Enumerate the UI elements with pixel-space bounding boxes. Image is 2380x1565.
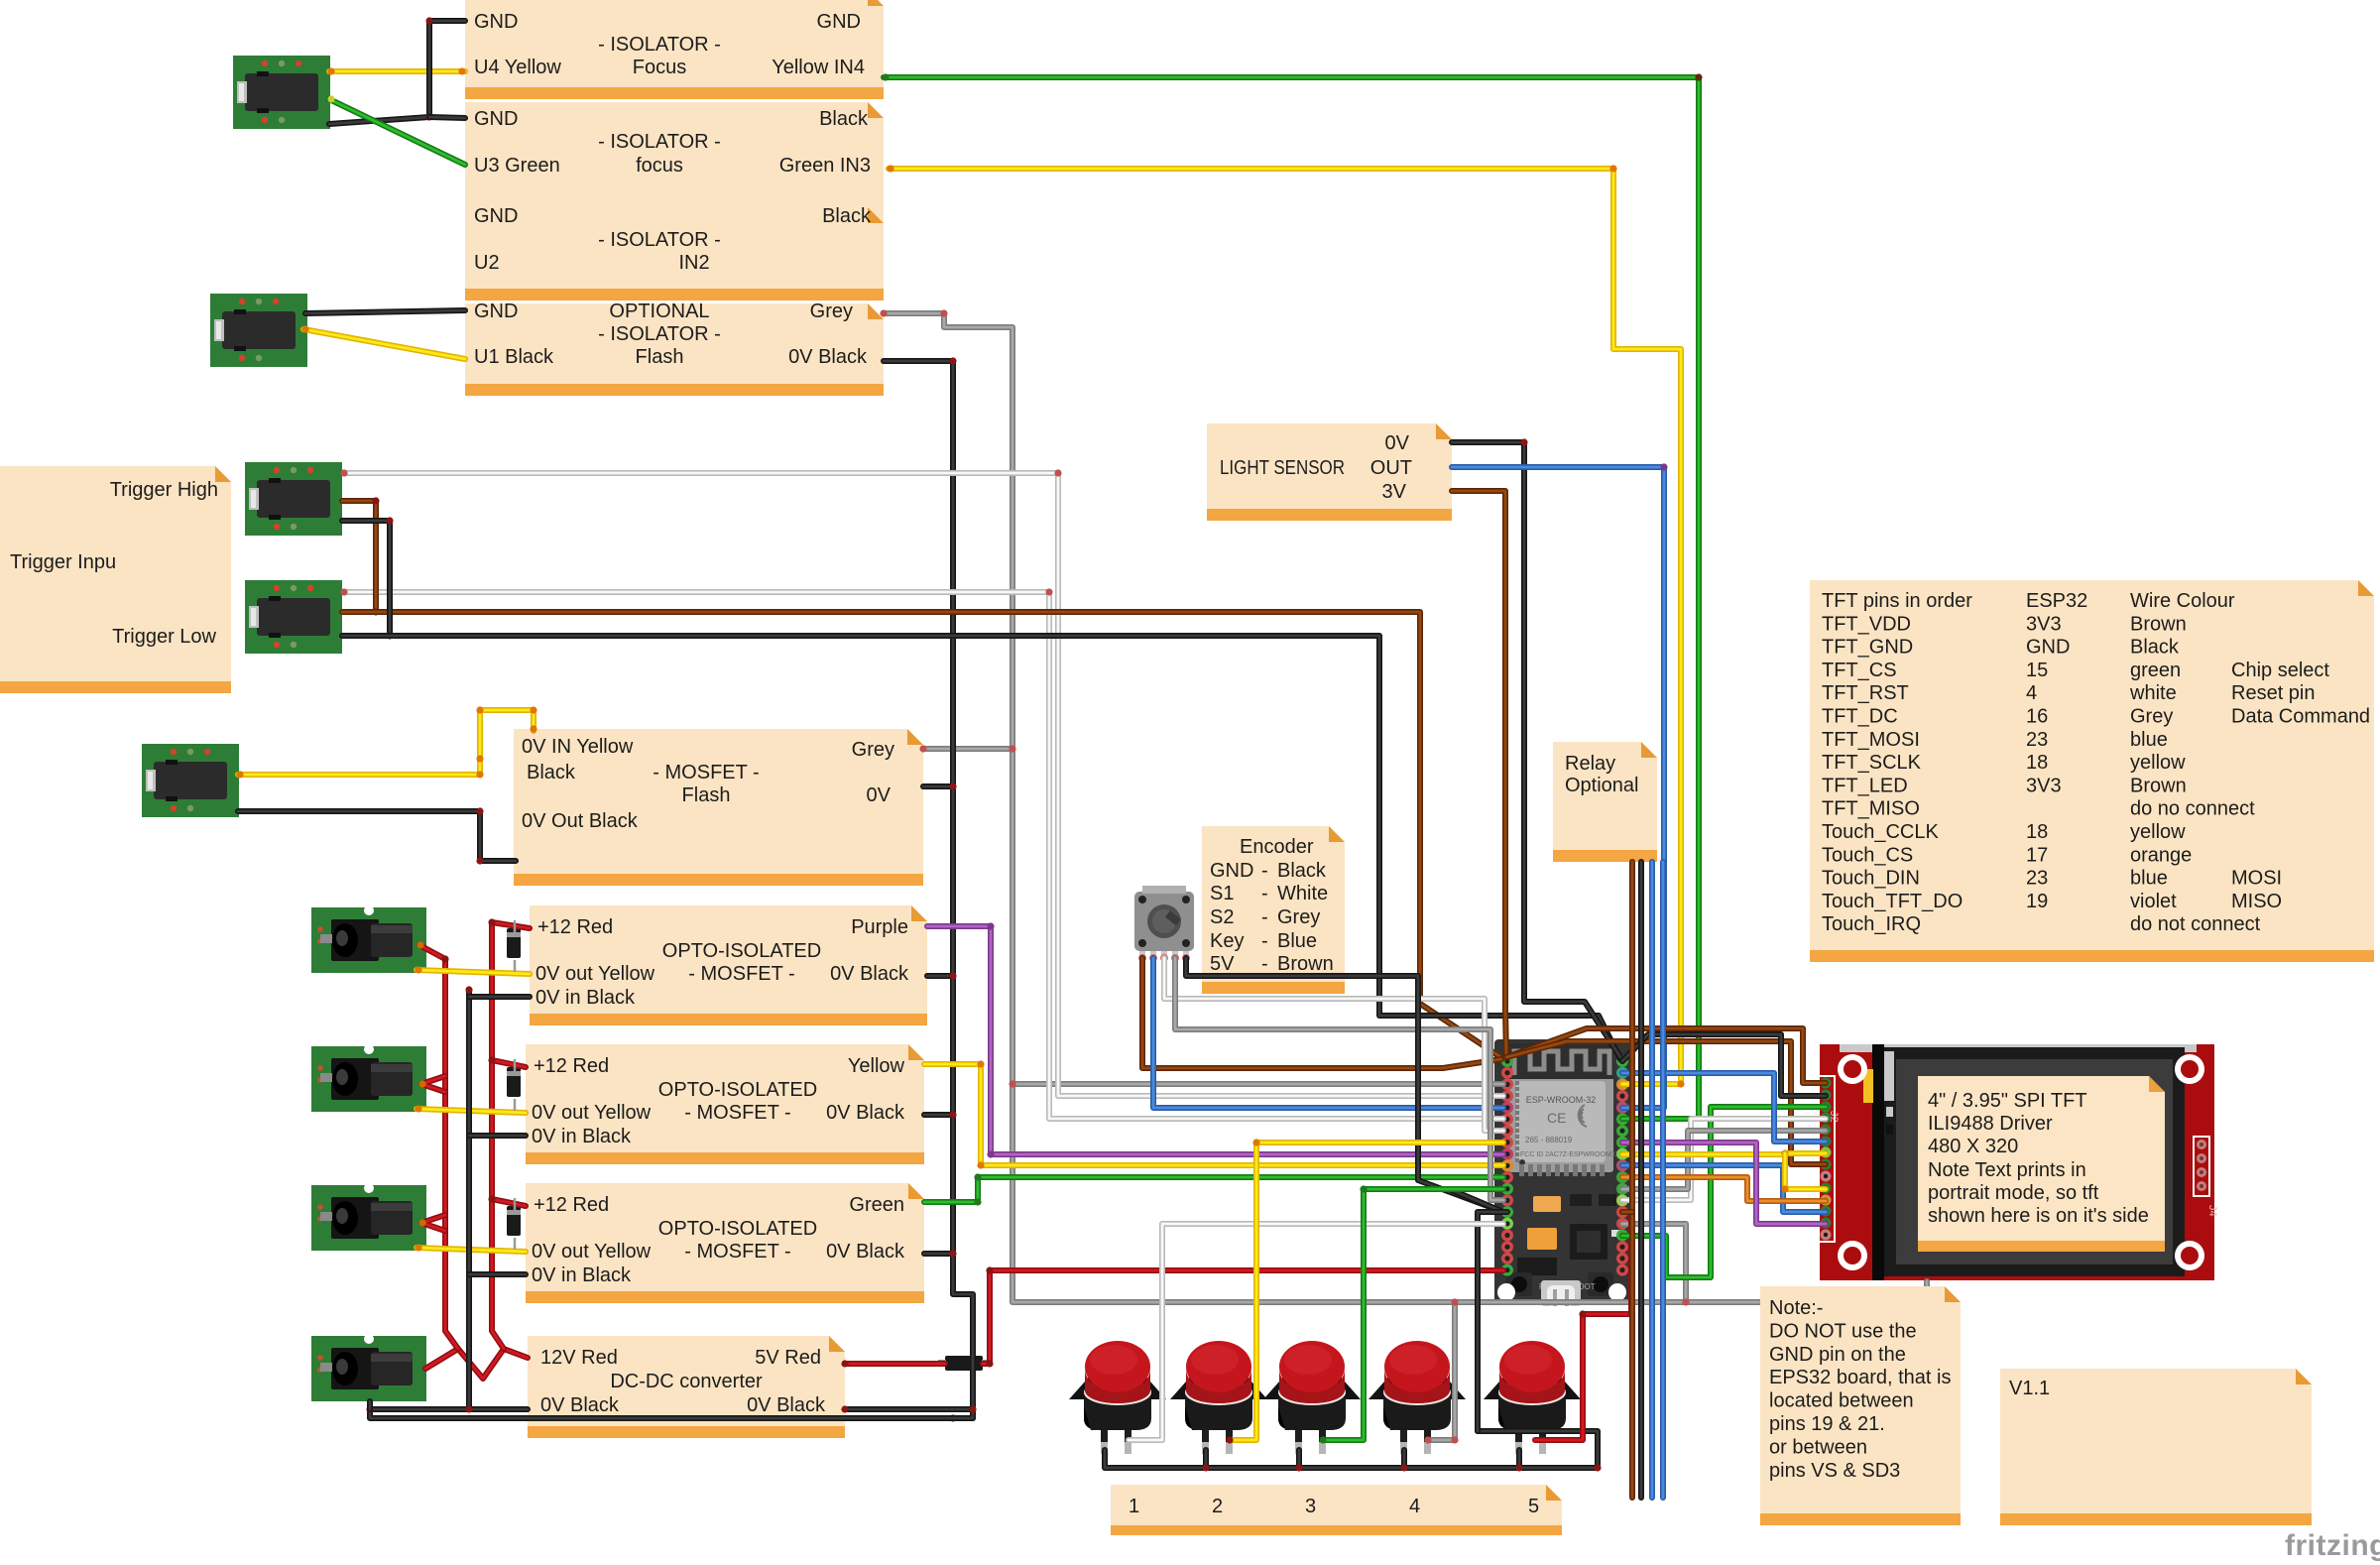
wire white TFT RST [1622, 1119, 1826, 1200]
svg-text:3: 3 [1305, 1496, 1316, 1517]
svg-text:fritzing: fritzing [2285, 1529, 2380, 1562]
wire red diode to ESP VIN [983, 1270, 1503, 1364]
svg-text:3V3: 3V3 [2026, 775, 2062, 796]
wire black button2 leg [1203, 1450, 1209, 1468]
ESP32 pin G33 (left) [1501, 1137, 1513, 1148]
wire white trigger low S [344, 592, 1503, 1119]
wire yellow U1 input [303, 329, 465, 359]
wire grey U1 bus [884, 313, 1927, 1302]
wire yellow touch CCLK [1785, 1153, 1826, 1189]
wire black trigger high [342, 521, 390, 636]
svg-text:18: 18 [2026, 752, 2048, 774]
note optional isolator flash [465, 303, 884, 396]
svg-text:Green: Green [849, 1194, 904, 1216]
wire yellow U4 jack tip [329, 68, 465, 74]
ESP32 pin VN (left) [1501, 1090, 1513, 1102]
svg-text:15: 15 [2026, 660, 2048, 681]
TFT J4 pin 1 [2197, 1140, 2206, 1149]
svg-text:Chip select: Chip select [2231, 660, 2329, 681]
svg-text:0V IN Yellow: 0V IN Yellow [522, 736, 634, 758]
svg-text:3V3: 3V3 [2026, 613, 2062, 635]
wire red rail +12 feeds [492, 922, 530, 1349]
svg-text:S2: S2 [1210, 906, 1234, 928]
wire brown TFT LED [1506, 1041, 1826, 1164]
svg-text:4: 4 [2026, 682, 2037, 704]
TFT J2 pin 4 [1821, 1113, 1832, 1124]
TFT J2 pin 7 [1821, 1147, 1832, 1158]
svg-text:blue: blue [2130, 868, 2168, 890]
svg-text:0V Black: 0V Black [747, 1394, 826, 1416]
diode D4 [945, 1356, 983, 1371]
svg-text:pins VS & SD3: pins VS & SD3 [1769, 1460, 1900, 1482]
ESP32 pin G35 (left) [1501, 1114, 1513, 1126]
ESP32 DevKit board U10 [1494, 1039, 1629, 1306]
svg-text:do no connect: do no connect [2130, 798, 2255, 820]
ESP32 pin SD3 (left) [1501, 1241, 1513, 1253]
svg-text:265 - 888019: 265 - 888019 [1525, 1136, 1573, 1144]
wire black spur mosfet1 [469, 994, 530, 1000]
ESP32 pin G13 (left) [1501, 1218, 1513, 1230]
svg-text:green: green [2130, 660, 2181, 681]
ESP32 pin G17 (right) [1616, 1171, 1628, 1183]
wire brown trigger high [342, 501, 376, 612]
svg-text:Black: Black [819, 108, 869, 130]
wire white encoder S1 [1164, 958, 1503, 1131]
note DC-DC converter [528, 1336, 845, 1438]
svg-text:Touch_DIN: Touch_DIN [1822, 868, 1920, 890]
svg-text:focus: focus [636, 155, 683, 177]
svg-text:-: - [1261, 883, 1268, 904]
svg-text:Focus: Focus [633, 57, 686, 78]
push button 1 [1069, 1341, 1166, 1454]
svg-text:Optional: Optional [1565, 775, 1639, 796]
ESP32 pin SD0 (right) [1616, 1253, 1628, 1264]
svg-text:5V: 5V [1210, 953, 1235, 975]
svg-text:23: 23 [2026, 868, 2048, 890]
ESP32 pin G5 (right) [1616, 1159, 1628, 1171]
wire black encoder GND [1186, 958, 1503, 1212]
TFT J2 pin 10 [1821, 1183, 1832, 1194]
wire brown G0 stub [1622, 1209, 1632, 1215]
TFT J2 pin 13 [1821, 1218, 1832, 1229]
ESP32 pin CLK (right) [1616, 1264, 1628, 1276]
wire black MOSFET3 0V [924, 1251, 953, 1257]
TFT J2 pin 12 [1821, 1206, 1832, 1217]
wire green encoder stub [1139, 958, 1145, 976]
svg-text:TFT_CS: TFT_CS [1822, 660, 1897, 681]
svg-text:Touch_CCLK: Touch_CCLK [1822, 821, 1940, 843]
svg-text:-: - [1261, 860, 1268, 882]
wire black flash out [238, 811, 516, 861]
wire black ESP GND down [1478, 1212, 1507, 1431]
svg-text:Flash: Flash [682, 784, 731, 806]
ESP32 pin G2 (right) [1616, 1218, 1628, 1230]
svg-text:U2: U2 [474, 252, 500, 274]
TFT J2 pin 5 [1821, 1125, 1832, 1136]
svg-text:DC-DC converter: DC-DC converter [610, 1371, 763, 1392]
wire blue touch DIN [1622, 1165, 1826, 1212]
audio jack flash input J9 [142, 744, 239, 817]
note isolator U4 Focus [465, 0, 884, 99]
wire black button bus [1105, 1431, 1598, 1468]
svg-text:located between: located between [1769, 1390, 1914, 1412]
audio jack U1 input J6 [210, 294, 307, 367]
svg-text:white: white [2129, 682, 2177, 704]
wire black button5 leg [1516, 1450, 1522, 1468]
ESP32 pin GND (right) [1616, 1055, 1628, 1067]
svg-text:Green IN3: Green IN3 [779, 155, 871, 177]
wire black U3 GND [429, 117, 465, 118]
wire black spur mosfet3 [469, 1271, 526, 1277]
wire black light sensor 0V [1452, 442, 1620, 1057]
wire black U1 GND [305, 310, 465, 313]
ESP32 pin G21 (right) [1616, 1114, 1628, 1126]
ESP32 pin G23 (right) [1616, 1067, 1628, 1079]
ESP32 pin SD2 (left) [1501, 1230, 1513, 1242]
wire yellow jack2 0V out [416, 1109, 526, 1113]
svg-text:OPTO-ISOLATED: OPTO-ISOLATED [658, 1079, 817, 1101]
svg-text:LIGHT SENSOR: LIGHT SENSOR [1220, 457, 1345, 479]
TFT display module 4in ILI9488 [1820, 1044, 2218, 1280]
TFT J2 pin 6 [1821, 1137, 1832, 1147]
svg-text:TFT_SCLK: TFT_SCLK [1822, 752, 1922, 774]
note relay optional [1553, 742, 1657, 862]
svg-text:shown here is on it's side: shown here is on it's side [1928, 1205, 2149, 1227]
ESP32 pin G14 (left) [1501, 1183, 1513, 1195]
wire black button3 leg [1296, 1450, 1302, 1468]
ESP32 pin GND (left) [1501, 1206, 1513, 1218]
svg-text:or between: or between [1769, 1436, 1867, 1458]
svg-text:TFT_RST: TFT_RST [1822, 682, 1909, 704]
TFT J4 pin 3 [2197, 1167, 2206, 1177]
svg-text:IN2: IN2 [678, 252, 709, 274]
ESP32 pin G25 (left) [1501, 1148, 1513, 1160]
svg-text:23: 23 [2026, 729, 2048, 751]
svg-text:0V out Yellow: 0V out Yellow [535, 963, 655, 985]
svg-text:Black: Black [1277, 860, 1327, 882]
svg-text:+12 Red: +12 Red [534, 1055, 609, 1077]
wire yellow button2 [1230, 1143, 1503, 1440]
wire black jack4 stub [367, 1401, 373, 1409]
barrel jack +12V channel 1 [311, 905, 426, 973]
ESP32 pin G22 (right) [1616, 1078, 1628, 1090]
wire black MOSFET2 0V [924, 1112, 953, 1118]
wire brown light sensor 3V [1452, 491, 1506, 1057]
svg-text:1: 1 [1129, 1496, 1139, 1517]
svg-text:Yellow: Yellow [848, 1055, 905, 1077]
svg-text:ILI9488 Driver: ILI9488 Driver [1928, 1113, 2053, 1135]
svg-text:Brown: Brown [1277, 953, 1334, 975]
svg-text:Relay: Relay [1565, 753, 1615, 775]
svg-text:- MOSFET -: - MOSFET - [684, 1241, 790, 1263]
svg-text:Touch_IRQ: Touch_IRQ [1822, 913, 1921, 935]
wire black spur mosfet2 [469, 1133, 526, 1139]
svg-text:- ISOLATOR -: - ISOLATOR - [598, 323, 721, 345]
svg-text:Flash: Flash [636, 346, 684, 368]
wire red button5 [1535, 1212, 1631, 1440]
svg-text:0V in Black: 0V in Black [535, 987, 636, 1009]
wire white button1 [1129, 1224, 1503, 1440]
TFT J4 pin 2 [2197, 1153, 2206, 1163]
note isolator U2 IN2 [465, 207, 884, 301]
svg-text:0V Black: 0V Black [540, 1394, 620, 1416]
svg-text:12V Red: 12V Red [540, 1347, 618, 1369]
svg-text:- ISOLATOR -: - ISOLATOR - [598, 229, 721, 251]
svg-text:16: 16 [2026, 706, 2048, 728]
wire grey flash join [923, 746, 1012, 752]
rotary encoder [1134, 886, 1194, 951]
wire green button3 [1323, 1189, 1503, 1440]
wire brown TFT VDD [1506, 1028, 1826, 1083]
note TFT pin table [1810, 580, 2374, 962]
svg-text:Black: Black [527, 762, 576, 783]
TFT J2 pin 2 [1821, 1090, 1832, 1101]
wire grey branch to ESP VP [1012, 1081, 1503, 1087]
svg-text:TFT_LED: TFT_LED [1822, 775, 1908, 796]
svg-text:GND: GND [474, 301, 518, 322]
svg-text:0V Out Black: 0V Out Black [522, 810, 639, 832]
svg-text:Grey: Grey [810, 301, 853, 322]
wire red DCDC 12V zigzag [425, 1349, 528, 1379]
svg-text:- MOSFET -: - MOSFET - [688, 963, 794, 985]
ESP32 pin G15 (right) [1616, 1230, 1628, 1242]
TFT J4 pin 4 [2197, 1181, 2206, 1191]
wire red spur mosfet3 [492, 1199, 526, 1206]
svg-text:Purple: Purple [851, 916, 908, 938]
wire black trigger to ESP GND [342, 636, 1620, 1059]
svg-text:17: 17 [2026, 844, 2048, 866]
wire white trigger high S [344, 473, 1503, 1096]
push button 4 [1368, 1341, 1466, 1454]
svg-text:2: 2 [1212, 1496, 1223, 1517]
note encoder pinout [1202, 826, 1345, 994]
svg-text:Touch_CS: Touch_CS [1822, 844, 1913, 866]
wire yellow IN3 to ESP G22 [889, 169, 1681, 1084]
svg-text:0V in Black: 0V in Black [532, 1264, 632, 1286]
svg-text:0V Black: 0V Black [826, 1241, 905, 1263]
svg-text:Key: Key [1210, 930, 1244, 952]
note MOSFET flash [514, 729, 923, 886]
diode D1 leads [514, 920, 517, 972]
wire red DCDC 5V to diode [845, 1361, 945, 1367]
wire grey TFT DC [1622, 1131, 1826, 1189]
note light sensor [1207, 423, 1452, 521]
svg-text:GND: GND [474, 108, 518, 130]
ESP32 pin G27 (left) [1501, 1171, 1513, 1183]
svg-text:J4: J4 [2206, 1205, 2218, 1217]
ESP32 pin GND2 (right) [1616, 1125, 1628, 1137]
svg-text:do not connect: do not connect [2130, 913, 2261, 935]
wire yellow jack3 0V out [416, 1248, 526, 1252]
svg-text:Touch_TFT_DO: Touch_TFT_DO [1822, 891, 1963, 912]
TFT J2 pin 11 [1821, 1195, 1832, 1206]
ESP32 pin VIN (left) [1501, 1264, 1513, 1276]
ESP32 pin G4 (right) [1616, 1194, 1628, 1206]
TFT J2 pin 1 [1821, 1078, 1832, 1089]
ESP32 pin G19 (right) [1616, 1137, 1628, 1148]
wire blue relay 1 [1649, 862, 1655, 1498]
svg-text:Grey: Grey [2130, 706, 2173, 728]
note opto-isolated MOSFET 3 [526, 1183, 924, 1303]
ESP32 pin G0 (right) [1616, 1206, 1628, 1218]
svg-text:TFT_VDD: TFT_VDD [1822, 613, 1911, 635]
svg-text:5V Red: 5V Red [755, 1347, 821, 1369]
wire green TFT CS [1622, 1107, 1826, 1277]
svg-text:- MOSFET -: - MOSFET - [684, 1102, 790, 1124]
ESP32 pin VP (left) [1501, 1078, 1513, 1090]
svg-text:- ISOLATOR -: - ISOLATOR - [598, 131, 721, 153]
ESP32 pin G18 (right) [1616, 1148, 1628, 1160]
push button 5 [1484, 1341, 1581, 1454]
svg-text:pins 19 & 21.: pins 19 & 21. [1769, 1413, 1885, 1435]
barrel jack 12V input [311, 1334, 426, 1401]
wire black relay [1638, 862, 1644, 1498]
svg-text:ESP32: ESP32 [2026, 590, 2087, 612]
svg-text:Black: Black [2130, 637, 2180, 659]
wire red rail jacks [419, 945, 458, 1349]
TFT J2 pin 3 [1821, 1102, 1832, 1113]
push button 2 [1170, 1341, 1267, 1454]
svg-text:Trigger High: Trigger High [110, 479, 218, 501]
wire violet touch DO [1622, 1143, 1826, 1224]
audio jack trigger high J7 [245, 462, 342, 536]
barrel jack +12V channel 3 [311, 1183, 426, 1251]
svg-text:GND: GND [817, 11, 861, 33]
svg-text:OPTO-ISOLATED: OPTO-ISOLATED [662, 940, 821, 962]
svg-text:0V out Yellow: 0V out Yellow [532, 1102, 652, 1124]
encoder pins [1139, 951, 1145, 961]
svg-text:CE: CE [1547, 1110, 1566, 1126]
ESP32 pin G12 (left) [1501, 1194, 1513, 1206]
svg-text:Brown: Brown [2130, 775, 2187, 796]
svg-text:Trigger Inpu: Trigger Inpu [10, 551, 116, 573]
wire brown encoder 5V [1142, 958, 1501, 1068]
svg-text:TFT_DC: TFT_DC [1822, 706, 1898, 728]
svg-text:portrait mode, so tft: portrait mode, so tft [1928, 1182, 2099, 1204]
svg-text:0V Black: 0V Black [788, 346, 868, 368]
diode D1 [507, 928, 521, 958]
svg-text:GND pin on the: GND pin on the [1769, 1344, 1906, 1366]
note TFT description (on screen) [1918, 1076, 2165, 1252]
svg-text:MISO: MISO [2231, 891, 2282, 912]
svg-text:yellow: yellow [2130, 752, 2186, 774]
svg-text:GND: GND [474, 11, 518, 33]
barrel jack +12V channel 2 [311, 1044, 426, 1112]
svg-text:18: 18 [2026, 821, 2048, 843]
svg-text:Brown: Brown [2130, 613, 2187, 635]
wire brown trigger to ESP 3V3 [342, 612, 1502, 1058]
svg-text:White: White [1277, 883, 1328, 904]
svg-text:yellow: yellow [2130, 821, 2186, 843]
TFT J4 header [2194, 1137, 2209, 1196]
note opto-isolated MOSFET 1 [530, 905, 927, 1025]
wire black flash 0V join [923, 783, 953, 789]
svg-text:violet: violet [2130, 891, 2177, 912]
wire brown relay [1629, 862, 1635, 1498]
wire black GND fan [1452, 1190, 1503, 1212]
ESP32 pin TXD (right) [1616, 1090, 1628, 1102]
svg-text:OUT: OUT [1370, 457, 1412, 479]
wire blue relay 2 [1660, 862, 1666, 1498]
wire black TFT GND [1622, 1034, 1826, 1096]
svg-text:0V Black: 0V Black [830, 963, 909, 985]
svg-text:S1: S1 [1210, 883, 1234, 904]
audio jack trigger low J8 [245, 580, 342, 654]
wire orange touch CS [1622, 1177, 1826, 1201]
svg-text:GND: GND [1210, 860, 1253, 882]
audio jack U4/U3 input J5 [233, 56, 330, 129]
wire black 0V in rail [466, 990, 472, 1409]
note trigger inputs [0, 466, 231, 693]
diode D3 [507, 1206, 521, 1236]
svg-text:- ISOLATOR -: - ISOLATOR - [598, 34, 721, 56]
wire black MOSFET1 0V [927, 973, 953, 979]
ESP32 pin G26 (left) [1501, 1159, 1513, 1171]
wire green U3 input [329, 99, 465, 165]
svg-text:blue: blue [2130, 729, 2168, 751]
wire green MOSFET3 out [924, 1177, 1503, 1202]
wire red spur mosfet2 [492, 1060, 526, 1067]
wire yellow TFT SCLK [1622, 1153, 1826, 1154]
wire red spur jack2 [421, 1076, 445, 1092]
note GND pin warning [1760, 1286, 1961, 1525]
ESP32 pin SD1 (right) [1616, 1241, 1628, 1253]
svg-text:Data Command: Data Command [2231, 706, 2370, 728]
TFT J2 pin 9 [1821, 1171, 1832, 1182]
svg-text:480 X 320: 480 X 320 [1928, 1136, 2018, 1157]
ESP32 pin G34 (left) [1501, 1102, 1513, 1114]
note opto-isolated MOSFET 2 [526, 1044, 924, 1164]
ESP32 pin RXD (right) [1616, 1102, 1628, 1114]
svg-text:TFT pins in order: TFT pins in order [1822, 590, 1972, 612]
TFT J2 pin 14 [1821, 1230, 1832, 1241]
svg-text:EPS32 board, that is: EPS32 board, that is [1769, 1367, 1951, 1388]
svg-text:Trigger Low: Trigger Low [112, 626, 216, 648]
svg-text:19: 19 [2026, 891, 2048, 912]
note isolator U3 focus [465, 102, 884, 207]
wire yellow flash in [238, 710, 534, 775]
ESP32 pin 3V3 (left) [1501, 1055, 1513, 1067]
diode D3 leads [514, 1198, 517, 1250]
svg-text:Blue: Blue [1277, 930, 1317, 952]
ESP32 pin EN (left) [1501, 1067, 1513, 1079]
svg-text:0V: 0V [1385, 432, 1410, 454]
svg-text:3V: 3V [1382, 481, 1407, 503]
note version V1.1 [2000, 1369, 2312, 1525]
svg-text:U4 Yellow: U4 Yellow [474, 57, 561, 78]
svg-text:MOSI: MOSI [2231, 868, 2282, 890]
wire grey encoder S2 [1175, 958, 1503, 1200]
svg-text:TFT_GND: TFT_GND [1822, 637, 1913, 659]
svg-text:U1 Black: U1 Black [474, 346, 554, 368]
diode D2 [507, 1067, 521, 1097]
svg-text:4" / 3.95" SPI TFT: 4" / 3.95" SPI TFT [1928, 1090, 2087, 1112]
svg-text:Note Text prints in: Note Text prints in [1928, 1159, 2086, 1181]
svg-text:V1.1: V1.1 [2009, 1378, 2050, 1399]
svg-text:ESP-WROOM-32: ESP-WROOM-32 [1526, 1095, 1597, 1105]
svg-text:Grey: Grey [1277, 906, 1320, 928]
ESP32 pin CMD (left) [1501, 1253, 1513, 1264]
svg-text:5: 5 [1528, 1496, 1539, 1517]
wire green IN4 to ESP G21 [884, 77, 1699, 1119]
svg-text:FCC ID 2AC7Z-ESPWROOM32: FCC ID 2AC7Z-ESPWROOM32 [1520, 1151, 1619, 1158]
svg-text:OPTIONAL: OPTIONAL [609, 301, 709, 322]
wire grey ESP G2 stub [1622, 1224, 1686, 1302]
diode D2 leads [514, 1059, 517, 1111]
svg-text:0V Black: 0V Black [826, 1102, 905, 1124]
svg-text:- MOSFET -: - MOSFET - [653, 762, 759, 783]
wire yellow jack1 0V out [416, 970, 530, 974]
